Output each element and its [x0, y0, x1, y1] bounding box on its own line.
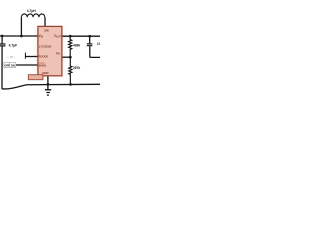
- IC U1 LTC3526 body: [38, 26, 62, 75]
- OFF/ON switch boxes: [4, 63, 16, 68]
- wire PGOOD dash: [10, 56, 13, 58]
- node L1/rail: [20, 35, 23, 38]
- SHDN overbar: [39, 62, 45, 64]
- node GND rail: [47, 83, 50, 86]
- node FB: [69, 56, 72, 59]
- wire FB: [62, 56, 71, 58]
- node VOUT/COUT: [88, 35, 91, 38]
- node CIN/rail: [1, 35, 4, 38]
- wire VOUT rail: [62, 35, 100, 37]
- wire SW leg: [44, 17, 46, 26]
- wire VIN rail: [0, 35, 38, 37]
- wire IC GND stem: [47, 76, 49, 85]
- capacitor COUT stem: [89, 36, 91, 43]
- svg-text:10µF: 10µF: [97, 42, 100, 46]
- wire inductor left leg: [20, 17, 22, 36]
- ground symbol: [47, 84, 49, 89]
- junction dots: [1, 35, 91, 86]
- svg-text:4.7µH: 4.7µH: [27, 9, 36, 13]
- svg-text:OFF: OFF: [5, 63, 11, 67]
- svg-text:4.7µF: 4.7µF: [9, 43, 18, 47]
- PGOOD terminal bar: [24, 53, 26, 59]
- IC pin labels: [39, 29, 62, 76]
- node VOUT/R1: [69, 35, 72, 38]
- svg-text:LTC3526: LTC3526: [39, 45, 52, 49]
- wire input cap stem: [1, 36, 3, 44]
- svg-text:SW: SW: [44, 29, 49, 33]
- svg-text:287k: 287k: [73, 66, 81, 70]
- svg-text:SHDN: SHDN: [39, 63, 46, 67]
- circuit schematic: LTC3526 boost converter typical application: [0, 0, 100, 100]
- pink halo bleed around IC: [35, 28, 65, 77]
- wire SHDN from OFF/ON: [16, 64, 38, 66]
- inductor L1 humps: [21, 14, 44, 17]
- svg-text:GND: GND: [42, 71, 48, 75]
- svg-text:PGOOD: PGOOD: [5, 56, 17, 60]
- resistor R1 499k: [69, 36, 72, 57]
- component value labels: [5, 9, 104, 70]
- wire input cap ground lead + bottom diagonal to ground rail: [2, 46, 100, 89]
- svg-text:PGOOD: PGOOD: [39, 54, 49, 58]
- svg-text:499k: 499k: [73, 43, 81, 47]
- resistor R2 287k: [69, 57, 72, 84]
- wire COUT lower lead exiting right: [90, 46, 100, 57]
- node R2/GND rail: [69, 83, 72, 86]
- capacitor COUT plates: [87, 44, 93, 46]
- capacitor CIN plates: [0, 44, 6, 46]
- tan figure-tag badge: [28, 75, 43, 80]
- svg-text:ON: ON: [11, 63, 15, 67]
- wire PGOOD to IC: [25, 56, 38, 58]
